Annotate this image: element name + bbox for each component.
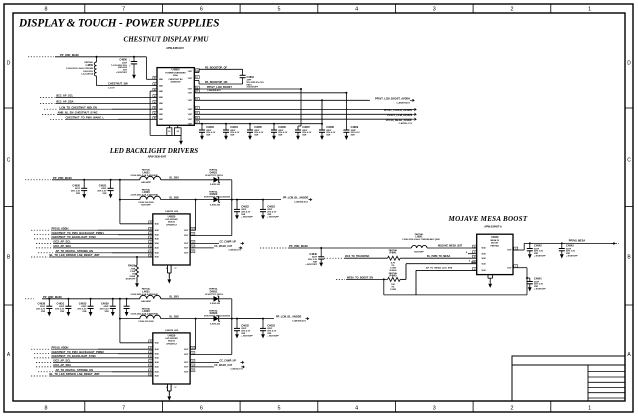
svg-text:VOUT: VOUT <box>184 372 188 374</box>
svg-text:VOUT: VOUT <box>188 123 192 125</box>
svg-text:2-SOD-923: 2-SOD-923 <box>210 184 221 186</box>
svg-text:PARTIAL: PARTIAL <box>491 244 500 247</box>
ground (driver2 IC) <box>168 391 170 395</box>
capacitor C4633 <box>262 318 264 320</box>
svg-text:AP_TO_DIGITAL_STROBE_EN: AP_TO_DIGITAL_STROBE_EN <box>56 368 94 372</box>
IC U4800 PMU <box>157 68 194 126</box>
svg-text:C: C <box>627 158 631 164</box>
svg-text:VOUT: VOUT <box>184 243 188 245</box>
driver1 input CHESTNUT_TO_BACKLIGHT_SYNC <box>34 238 50 240</box>
PMU left input AMB_BL_EN_CHESTNUT_SYNC <box>42 113 56 115</box>
svg-text:C: C <box>7 158 11 164</box>
svg-text:X5R: X5R <box>76 193 81 195</box>
net PP_VDD_MAIN entry (PMU) <box>28 56 54 58</box>
right row strip <box>625 107 633 109</box>
svg-text:2-SOD-923: 2-SOD-923 <box>210 204 221 206</box>
svg-text:C-AVDDL-1CV: C-AVDDL-1CV <box>399 122 413 125</box>
svg-text:+ NOSTUFF: + NOSTUFF <box>534 289 546 291</box>
mojave IC ground stubs <box>487 275 489 279</box>
wire CHESTNUT_SW <box>97 85 158 87</box>
svg-text:C1: C1 <box>192 370 194 372</box>
svg-text:BGA16: BGA16 <box>168 220 176 223</box>
svg-text:APW-33841172: APW-33841172 <box>166 47 184 50</box>
wire BL_SW1 (driver 1) <box>161 179 214 181</box>
capacitor C4841 <box>526 277 528 279</box>
svg-text:MOJAVE MESA BOOST: MOJAVE MESA BOOST <box>448 215 528 223</box>
capacitor C4638 <box>48 298 50 300</box>
svg-text:BL_TO_LED_DRIVER_LSB_RESET_JMP: BL_TO_LED_DRIVER_LSB_RESET_JMP <box>50 253 100 257</box>
wire SW2 rail (driver 1) <box>120 199 140 201</box>
svg-text:C4623: C4623 <box>267 205 275 209</box>
svg-text:4: 4 <box>355 7 358 13</box>
net PP_VDD_MAIN entry (driver 1) <box>25 179 51 181</box>
svg-text:BL_SW1: BL_SW1 <box>170 178 180 180</box>
wire mojave sense pin to bottom <box>416 269 477 271</box>
svg-text:2.2UH 20% 2020: 2.2UH 20% 2020 <box>138 321 154 323</box>
driver1 IC ground stubs <box>167 265 169 273</box>
svg-text:X5R: X5R <box>105 311 110 313</box>
top column strip <box>84 4 86 13</box>
IC U4840 stub pin <box>468 253 477 255</box>
wire bus bottom <box>194 123 322 125</box>
wire PMU PGND drop <box>150 90 157 92</box>
svg-text:17: 17 <box>175 387 177 389</box>
wire diode join vertical (driver 1) <box>219 199 232 201</box>
svg-text:3: 3 <box>492 276 493 278</box>
svg-text:DISPLAY & TOUCH - POWER SUPPLI: DISPLAY & TOUCH - POWER SUPPLIES <box>18 18 219 30</box>
capacitor C4842 <box>529 242 531 244</box>
svg-text:CHESTNUT_TO_PMU_BACKLIGHT_PWM2: CHESTNUT_TO_PMU_BACKLIGHT_PWM2 <box>52 350 105 354</box>
wire BL_SW1 (driver 2) <box>161 298 214 300</box>
svg-text:C4633: C4633 <box>267 324 275 328</box>
svg-text:7: 7 <box>122 7 125 13</box>
PMU bottom pads <box>167 128 172 136</box>
svg-text:C4800: C4800 <box>119 58 127 62</box>
svg-text:VOUT: VOUT <box>184 235 188 237</box>
svg-text:VOUT: VOUT <box>188 119 192 121</box>
svg-text:C-AVDDH-4CV: C-AVDDH-4CV <box>396 102 410 105</box>
svg-text:I2C3_TO_TRACKPAD: I2C3_TO_TRACKPAD <box>345 255 369 258</box>
PMU left input I2C2_AP_SCL <box>40 97 55 99</box>
svg-text:3: 3 <box>433 7 436 13</box>
driver1 output PP_WLED_CAT <box>190 247 214 249</box>
svg-text:VOUT: VOUT <box>184 230 188 232</box>
svg-text:1: 1 <box>488 276 489 278</box>
svg-text:LED BACKLIGHT DRIVERS: LED BACKLIGHT DRIVERS <box>109 147 198 155</box>
svg-text:X5R: X5R <box>206 135 211 137</box>
svg-text:VOUT: VOUT <box>184 349 188 351</box>
driver1 input BL_TO_LED_DRIVER_LSB_RESET_JMP <box>31 256 48 258</box>
capacitor C4632 <box>236 318 238 320</box>
svg-text:R4841: R4841 <box>389 252 397 255</box>
svg-text:1: 1 <box>588 7 591 13</box>
driver1 output PP_CHSNT_UP <box>190 242 219 244</box>
capacitor C4623 <box>262 199 264 201</box>
wire PWM to IC (mojave) <box>400 257 477 259</box>
svg-text:X5R: X5R <box>278 135 283 137</box>
svg-text:LP8550TLX: LP8550TLX <box>166 225 177 227</box>
driver2 input PP1V8_VDDH <box>31 348 50 350</box>
svg-text:SCHOTTKY-30V1A: SCHOTTKY-30V1A <box>205 174 223 177</box>
wire left loop vertical (driver 1) <box>119 180 121 224</box>
wire driver2 FB sense <box>231 319 233 355</box>
svg-text:C4622: C4622 <box>241 205 249 209</box>
driver2 IC ground stubs <box>167 384 169 391</box>
svg-text:U4620: U4620 <box>168 214 176 218</box>
svg-text:CC_WLED_CAT: CC_WLED_CAT <box>214 364 232 367</box>
wire SW1 to anode (driver 2) <box>219 298 232 300</box>
ground (mojave IC) <box>489 278 491 281</box>
svg-text:9: 9 <box>166 387 167 389</box>
svg-text:VOUT: VOUT <box>188 93 192 95</box>
svg-text:C4840: C4840 <box>309 252 317 256</box>
svg-text:C4805: C4805 <box>254 125 262 129</box>
capacitor C4800 <box>133 57 135 62</box>
svg-text:PP_LCM_BL_ANODE: PP_LCM_BL_ANODE <box>283 197 309 200</box>
svg-text:C1: C1 <box>192 251 194 253</box>
svg-text:PP5V7_LCM_BOOST: PP5V7_LCM_BOOST <box>207 86 232 89</box>
svg-text:1: 1 <box>588 406 591 412</box>
svg-text:C4620: C4620 <box>72 184 80 188</box>
svg-text:CC_CHMP_UP: CC_CHMP_UP <box>220 240 237 243</box>
svg-text:C-WLED-1CV: C-WLED-1CV <box>230 369 243 371</box>
svg-text:APW-53445T-A: APW-53445T-A <box>484 225 502 228</box>
svg-text:AP_TO_MESA_LDO_STB: AP_TO_MESA_LDO_STB <box>426 266 453 269</box>
ground (driver1 IC) <box>168 273 170 278</box>
svg-text:C-ANODE-4CV: C-ANODE-4CV <box>207 89 222 92</box>
driver1 input AP_TO_DIGITAL_STROBE_EN <box>38 252 54 254</box>
svg-text:17: 17 <box>175 268 177 270</box>
svg-text:8: 8 <box>45 406 48 412</box>
svg-text:5: 5 <box>277 7 280 13</box>
capacitor C4803 <box>199 126 205 140</box>
svg-text:6: 6 <box>200 406 203 412</box>
svg-text:D4631: D4631 <box>210 289 218 293</box>
inductor L4800 <box>94 62 96 76</box>
svg-text:VOUT: VOUT <box>184 362 188 364</box>
svg-text:BL_SW1: BL_SW1 <box>170 297 180 299</box>
svg-text:R4840: R4840 <box>389 275 397 278</box>
wire VDD to coils (driver 1) <box>120 179 140 181</box>
svg-text:X5R: X5R <box>254 135 259 137</box>
svg-text:AMB_BL_EN_CHESTNUT_SYNC: AMB_BL_EN_CHESTNUT_SYNC <box>58 111 98 115</box>
driver2 output PP_WLED_CAT <box>190 366 214 368</box>
driver2 input CHESTNUT_TO_PMU_BACKLIGHT_PWM2 <box>34 353 50 355</box>
svg-text:1-WHITE_LED: 1-WHITE_LED <box>165 211 179 213</box>
svg-text:1.0UH-2013-1.5A-D-17MOHM: 1.0UH-2013-1.5A-D-17MOHM <box>66 67 93 70</box>
wire bus BOOST A <box>194 88 301 90</box>
svg-text:5: 5 <box>277 406 280 412</box>
svg-text:VOUT: VOUT <box>507 267 511 269</box>
svg-text:C4809: C4809 <box>351 125 359 129</box>
PMU left input CHESTNUT_TO_PMU_WAKE_L <box>50 118 64 120</box>
left row strip <box>4 107 13 109</box>
svg-text:L4841: L4841 <box>415 235 423 238</box>
svg-text:LCM_TO_CHESTNUT_MID_EN: LCM_TO_CHESTNUT_MID_EN <box>60 105 98 109</box>
svg-text:X5R: X5R <box>302 135 307 137</box>
capacitor C4809 <box>343 126 349 140</box>
capacitor C4622 <box>236 199 238 201</box>
svg-text:CHESTNUT_TO_BACKLIGHT_SYNC: CHESTNUT_TO_BACKLIGHT_SYNC <box>52 354 97 358</box>
ground (R4620) <box>136 277 138 282</box>
svg-text:C-ANODE-4CV: C-ANODE-4CV <box>294 200 309 203</box>
wire bus LCM AVDDN <box>194 113 367 115</box>
svg-text:+ NOSTUFF: + NOSTUFF <box>267 216 279 218</box>
capacitor C4806 <box>271 126 277 140</box>
capacitor C4620 <box>83 179 85 181</box>
svg-text:SCHOTTKY-30V1A: SCHOTTKY-30V1A <box>205 293 223 296</box>
svg-text:BL_SW2: BL_SW2 <box>170 197 180 199</box>
wire PP_LCM_BL_ANODE (driver 1) <box>232 199 281 201</box>
wire VDD pin feed (driver 2) <box>120 342 153 344</box>
svg-text:9: 9 <box>166 268 167 270</box>
svg-text:VOUT: VOUT <box>188 71 192 73</box>
title block divider <box>587 365 589 401</box>
ground (PMU) <box>180 135 182 138</box>
svg-text:VOUT: VOUT <box>184 367 188 369</box>
svg-text:C-WLED-1CV: C-WLED-1CV <box>228 250 241 252</box>
svg-text:W-0402: W-0402 <box>390 269 398 272</box>
wire FB loop (mojave) <box>513 267 527 269</box>
svg-text:+ NOSTUFF: + NOSTUFF <box>116 72 128 74</box>
svg-text:U4800: U4800 <box>172 68 180 72</box>
svg-text:NOSTUFF: NOSTUFF <box>126 278 136 280</box>
svg-text:VOUT: VOUT <box>184 354 188 356</box>
feedback loop FB_BOOSTOP_OF <box>194 72 199 74</box>
mojave PWM dashed entry <box>324 257 342 259</box>
svg-text:4: 4 <box>355 406 358 412</box>
svg-text:C4842: C4842 <box>534 244 542 248</box>
svg-text:C-ANODE-4CV: C-ANODE-4CV <box>292 319 307 322</box>
svg-text:NOSTUFF: NOSTUFF <box>141 204 151 206</box>
svg-text:I2C2_AP_SCL: I2C2_AP_SCL <box>56 94 74 98</box>
svg-text:X5R: X5R <box>326 135 331 137</box>
svg-text:C1: C1 <box>196 70 198 72</box>
driver1 input CHESTNUT_TO_PMU_BACKLIGHT_PWM1 <box>34 234 50 236</box>
capacitor C4808 <box>319 126 325 140</box>
svg-text:U4840: U4840 <box>491 235 499 239</box>
svg-text:PP_VDD_MAIN: PP_VDD_MAIN <box>43 295 62 299</box>
svg-text:+ NOSTUFF: + NOSTUFF <box>241 216 253 218</box>
svg-text:C4806: C4806 <box>278 125 286 129</box>
svg-text:CHESTNUT_TO_PMU_WAKE_L: CHESTNUT_TO_PMU_WAKE_L <box>66 115 105 119</box>
svg-text:C4843: C4843 <box>566 244 574 248</box>
svg-text:L4621: L4621 <box>142 170 150 174</box>
svg-text:BL_TO_LED_DRIVER_LSB_RESET_JMP: BL_TO_LED_DRIVER_LSB_RESET_JMP <box>50 372 100 376</box>
wire SW1 to anode node <box>219 179 232 181</box>
driver1 input PP1V8_VDDH <box>31 229 50 231</box>
svg-text:X5R: X5R <box>60 311 65 313</box>
svg-text:C4633: C4633 <box>79 301 87 305</box>
title block outer <box>512 356 625 401</box>
svg-text:2: 2 <box>510 406 513 412</box>
svg-text:+ NOSTUFF: + NOSTUFF <box>534 256 546 258</box>
svg-text:C4638: C4638 <box>37 301 45 305</box>
capacitor C4802 <box>242 69 244 75</box>
wire bus TOUCH AVDDH <box>194 108 365 110</box>
resistor R4620 <box>136 256 138 258</box>
svg-text:CHESTNUT DISPLAY PMU: CHESTNUT DISPLAY PMU <box>124 36 210 44</box>
svg-text:L4B-SM1P: L4B-SM1P <box>141 181 152 184</box>
wire VIN rail (mojave) <box>321 247 411 249</box>
svg-text:L4620: L4620 <box>142 190 150 194</box>
svg-text:+ NOSTUFF: + NOSTUFF <box>267 335 279 337</box>
svg-text:+ NOSTUFF: + NOSTUFF <box>241 335 253 337</box>
svg-text:I2C2_AP_SCL: I2C2_AP_SCL <box>54 359 72 363</box>
driver2 input BL_TO_LED_DRIVER_LSB_RESET_JMP <box>31 375 48 377</box>
PMU left input I2C2_AP_SDA <box>40 102 55 104</box>
svg-text:VOUT: VOUT <box>507 250 511 252</box>
svg-text:7: 7 <box>122 406 125 412</box>
IC U4620 LED driver <box>153 214 190 265</box>
svg-text:2-SOD-923: 2-SOD-923 <box>210 303 221 305</box>
title block rows <box>588 371 625 373</box>
svg-text:L-A-LGEC04: L-A-LGEC04 <box>81 72 94 75</box>
wire VDD top rail <box>97 56 147 58</box>
capacitor C4807 <box>295 126 301 140</box>
capacitor C4631 <box>67 298 69 300</box>
svg-text:VOUT: VOUT <box>188 109 192 111</box>
wire bus AVDDH out <box>194 99 368 101</box>
svg-text:CHESTNUT_TO_PMU_BACKLIGHT_PWM1: CHESTNUT_TO_PMU_BACKLIGHT_PWM1 <box>52 231 105 235</box>
svg-text:L4B-SM1P: L4B-SM1P <box>141 300 152 303</box>
svg-text:8: 8 <box>45 7 48 13</box>
wire bus MESA AVDDL <box>194 118 367 120</box>
PMU left input LCM_TO_CHESTNUT_MID_EN <box>44 108 58 110</box>
wire driver2 OVP sense <box>195 319 197 350</box>
driver2 input CHESTNUT_TO_BACKLIGHT_SYNC <box>34 357 50 359</box>
svg-text:CC_WLED_CAT: CC_WLED_CAT <box>214 245 232 248</box>
svg-text:PP5V8_MESA: PP5V8_MESA <box>569 240 586 243</box>
capacitor C4840 <box>320 247 322 249</box>
feedback loop FB_BOOSTOP_ON <box>194 80 199 82</box>
svg-text:LP8550TLX: LP8550TLX <box>166 344 177 346</box>
svg-text:I2C2_AP_SDA: I2C2_AP_SDA <box>54 363 72 367</box>
IC U4840 mesa boost <box>477 234 513 274</box>
svg-text:BOOST: BOOST <box>491 243 499 245</box>
svg-text:X5R: X5R <box>82 311 87 313</box>
capacitor C4843 <box>561 242 563 244</box>
svg-text:C4807: C4807 <box>302 125 310 129</box>
svg-text:MESA_TO_BOOST_EN: MESA_TO_BOOST_EN <box>347 276 373 279</box>
capacitor C4630 <box>126 298 128 300</box>
ground (C4800) <box>132 72 136 79</box>
wire VOUT (mojave) <box>513 249 524 251</box>
svg-text:PP_VDD_MAIN: PP_VDD_MAIN <box>289 244 308 248</box>
svg-text:NOSTUFF: NOSTUFF <box>414 252 424 254</box>
wire EN to IC (mojave) <box>400 278 406 280</box>
svg-text:2-SOD-923: 2-SOD-923 <box>210 323 221 325</box>
svg-text:S-NOSTUFF: S-NOSTUFF <box>247 87 259 89</box>
svg-text:C1: C1 <box>196 77 198 79</box>
svg-text:C4808: C4808 <box>326 125 334 129</box>
svg-text:CC_CHMP_UP: CC_CHMP_UP <box>220 359 237 362</box>
svg-text:X5R: X5R <box>230 135 235 137</box>
svg-text:R4620: R4620 <box>128 265 136 268</box>
svg-text:MOJAVE_MESA_BST: MOJAVE_MESA_BST <box>438 245 463 248</box>
capacitor C4805 <box>247 126 253 140</box>
svg-text:2.2UH-2016-2.5A-D-71MOHM-AEC-Q: 2.2UH-2016-2.5A-D-71MOHM-AEC-Q200 <box>402 238 440 241</box>
svg-text:C4621: C4621 <box>99 184 107 188</box>
wire BL_SW2 (driver 1) <box>161 199 214 201</box>
svg-text:C4639: C4639 <box>101 301 109 305</box>
IC U4630 LED driver <box>153 333 190 384</box>
svg-text:6: 6 <box>200 7 203 13</box>
capacitor C4633b <box>90 298 92 300</box>
svg-text:+ NOSTUFF: + NOSTUFF <box>566 256 578 258</box>
svg-text:I2C2_AP_SDA: I2C2_AP_SDA <box>54 244 72 248</box>
driver1 input I2C2_AP_SDA <box>36 247 52 249</box>
capacitor C4804 <box>223 126 229 140</box>
svg-text:X5R: X5R <box>102 193 107 195</box>
svg-text:PP_LCM_BL_ANODE: PP_LCM_BL_ANODE <box>276 316 302 319</box>
wire BL_SW2 (driver 2) <box>161 318 214 320</box>
wire driver1 OVP sense <box>195 200 197 231</box>
svg-text:C4804: C4804 <box>230 125 238 129</box>
svg-text:3: 3 <box>433 406 436 412</box>
bottom column strip <box>84 401 86 412</box>
svg-text:BL_PWM_TO_MESA: BL_PWM_TO_MESA <box>427 255 450 258</box>
svg-text:C4632: C4632 <box>241 324 249 328</box>
svg-text:PP1V8_VDDH: PP1V8_VDDH <box>52 345 69 349</box>
svg-text:APW-3536-0047: APW-3536-0047 <box>148 155 167 158</box>
svg-text:D4621: D4621 <box>210 170 218 174</box>
svg-text:X5R: X5R <box>41 311 46 313</box>
driver2 input AP_TO_DIGITAL_STROBE_EN <box>38 371 54 373</box>
svg-text:C4803: C4803 <box>206 125 214 129</box>
svg-text:BL_SW2: BL_SW2 <box>170 316 180 318</box>
svg-text:VOUT: VOUT <box>188 78 192 80</box>
driver2 input I2C2_AP_SDA <box>36 366 52 368</box>
svg-text:VOUT: VOUT <box>188 89 192 91</box>
driver2 input I2C2_AP_SCL <box>36 361 52 363</box>
svg-text:FB_BOOSTOP_OF: FB_BOOSTOP_OF <box>205 66 228 69</box>
driver1 input I2C2_AP_SCL <box>36 242 52 244</box>
svg-text:MESA 5V: MESA 5V <box>490 239 499 242</box>
wire VDD pin feed (driver 1) <box>120 223 153 225</box>
wire VIN to PMU <box>145 57 147 80</box>
svg-text:VOUT: VOUT <box>188 100 192 102</box>
mojave EN dashed entry <box>336 278 345 280</box>
wire driver1 FB sense right <box>231 200 233 236</box>
net PP_VDD_MAIN entry (driver 2) <box>25 298 34 300</box>
svg-text:C4841: C4841 <box>534 277 542 281</box>
svg-text:C4631: C4631 <box>57 301 65 305</box>
wire coil to IC (mojave) <box>427 247 477 249</box>
wire bus BOOST B <box>194 92 346 94</box>
svg-text:I2C2_AP_SDA: I2C2_AP_SDA <box>56 100 74 104</box>
svg-text:POWER/CHARGERS: POWER/CHARGERS <box>165 71 186 74</box>
svg-text:BGA16: BGA16 <box>168 339 176 342</box>
wire VDD to coils (driver 2) <box>120 298 140 300</box>
svg-text:CHESTNUT_TO_BACKLIGHT_SYNC: CHESTNUT_TO_BACKLIGHT_SYNC <box>52 235 97 239</box>
svg-text:L4630: L4630 <box>142 309 150 313</box>
svg-text:D: D <box>627 60 631 66</box>
svg-text:+ NOSTUFF: + NOSTUFF <box>305 264 317 266</box>
svg-text:PP_VDD_MAIN: PP_VDD_MAIN <box>60 53 79 57</box>
wire SW2 rail (driver 2) <box>120 318 140 320</box>
svg-text:C-1707: C-1707 <box>108 87 115 89</box>
svg-text:FB_BOOSTOP_ON: FB_BOOSTOP_ON <box>205 81 228 84</box>
svg-text:343S00047: 343S00047 <box>170 81 181 84</box>
svg-text:VOUT: VOUT <box>184 248 188 250</box>
svg-text:AP_TO_DIGITAL_STROBE_EN: AP_TO_DIGITAL_STROBE_EN <box>56 249 94 253</box>
svg-text:1/16W: 1/16W <box>390 289 396 291</box>
svg-text:VOUT: VOUT <box>188 114 192 116</box>
wire left loop vertical (driver 2) <box>119 299 121 343</box>
svg-text:2: 2 <box>510 7 513 13</box>
svg-text:CHESTNUT_SW: CHESTNUT_SW <box>108 81 128 85</box>
